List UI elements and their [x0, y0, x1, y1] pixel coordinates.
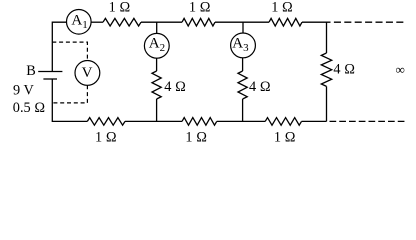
ammeter A1: [67, 9, 92, 34]
wire R6 to bottom: [326, 86, 328, 121]
wire R8 to node5 to R9: [217, 120, 266, 122]
svg-text:1 Ω: 1 Ω: [189, 0, 211, 16]
svg-text:1 Ω: 1 Ω: [185, 130, 207, 146]
wire top-left corner to A1: [52, 22, 66, 71]
resistor R9 1ohm bottom: [265, 118, 301, 126]
voltmeter V: [75, 61, 100, 86]
battery B plate long: [38, 71, 62, 73]
wire R7 to node4 to R8: [125, 120, 182, 122]
wire top dashed continuation: [334, 21, 404, 23]
wire node3 down to R6: [326, 22, 328, 53]
wire R5 to bottom: [242, 99, 244, 121]
svg-text:A2: A2: [149, 36, 165, 54]
node2 stub to A3: [242, 22, 244, 33]
svg-text:9 V: 9 V: [13, 83, 34, 99]
resistor R5 4ohm: [238, 71, 247, 99]
voltmeter V dashed lead bottom: [52, 85, 87, 103]
resistor R3 1ohm top: [269, 18, 302, 26]
resistor R7 1ohm bottom: [87, 118, 125, 126]
node1 stub to A2: [156, 22, 158, 33]
wire A1 to R1: [91, 21, 103, 23]
svg-text:A3: A3: [232, 36, 249, 54]
svg-text:1 Ω: 1 Ω: [274, 130, 296, 146]
wire R2 to node2 to R3: [215, 21, 269, 23]
voltmeter V dashed lead top: [52, 42, 87, 60]
wire bottom dashed continuation: [330, 120, 405, 122]
wire R4 to bottom: [156, 99, 158, 121]
wire battery to bottom-left corner: [52, 79, 87, 121]
ammeter A3: [231, 33, 256, 58]
svg-text:B: B: [26, 63, 36, 79]
svg-text:4 Ω: 4 Ω: [164, 79, 186, 95]
wire A3 to R5: [242, 58, 244, 71]
wire R3 to node3: [302, 21, 331, 23]
wire R1 to node1 to R2: [141, 21, 182, 23]
resistor R4 4ohm: [152, 71, 161, 99]
resistor R8 1ohm bottom: [182, 118, 217, 126]
svg-text:4 Ω: 4 Ω: [249, 79, 271, 95]
svg-text:1 Ω: 1 Ω: [109, 0, 131, 16]
svg-text:∞: ∞: [396, 62, 405, 77]
svg-text:4 Ω: 4 Ω: [333, 62, 355, 78]
resistor R6 4ohm right: [321, 53, 331, 86]
wire R9 to node6: [302, 120, 327, 122]
battery B plate short: [43, 78, 57, 80]
wire A2 to R4: [156, 58, 158, 71]
ammeter A2: [144, 33, 169, 58]
svg-text:V: V: [82, 65, 93, 81]
svg-text:1 Ω: 1 Ω: [271, 0, 293, 16]
resistor R2 1ohm top: [182, 18, 215, 26]
svg-text:A1: A1: [71, 13, 87, 31]
svg-text:0.5 Ω: 0.5 Ω: [13, 100, 45, 116]
resistor R1 1ohm top: [103, 18, 141, 26]
svg-text:1 Ω: 1 Ω: [95, 130, 117, 146]
